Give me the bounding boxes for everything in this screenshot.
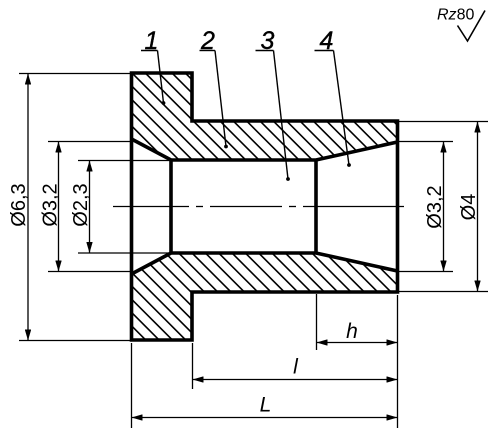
svg-text:Rz80: Rz80 (437, 7, 474, 24)
svg-text:Ø4: Ø4 (458, 194, 480, 221)
svg-text:3: 3 (261, 27, 275, 55)
svg-text:2: 2 (200, 27, 215, 55)
svg-text:1: 1 (145, 27, 159, 55)
svg-text:Ø3,2: Ø3,2 (424, 185, 446, 228)
svg-text:Ø2,3: Ø2,3 (70, 183, 92, 226)
svg-text:Ø3,2: Ø3,2 (39, 183, 61, 226)
svg-text:L: L (260, 394, 272, 417)
svg-text:Ø6,3: Ø6,3 (8, 183, 30, 226)
svg-text:h: h (346, 320, 358, 343)
svg-text:4: 4 (320, 27, 334, 55)
